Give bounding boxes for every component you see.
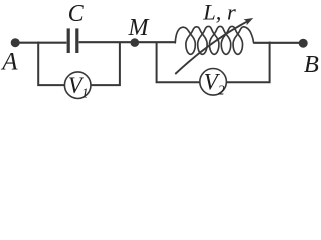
wire V1 loop left side (38, 42, 64, 86)
node A (11, 38, 20, 47)
node M (131, 38, 140, 47)
voltmeter V2 (200, 69, 227, 96)
wire V1 loop right side (91, 42, 120, 86)
wire capacitor to coil (79, 41, 176, 43)
svg-text:L, r: L, r (202, 0, 236, 24)
capacitor C right plate (75, 28, 78, 53)
variable inductor arrowhead (244, 18, 254, 25)
wire A to capacitor (15, 42, 66, 44)
wire coil to B (254, 42, 304, 44)
wire V2 loop left side (157, 42, 200, 83)
wire V2 loop right side (226, 42, 269, 83)
voltmeter V1 (64, 72, 91, 99)
svg-text:B: B (304, 51, 319, 78)
inductor L coil (175, 26, 253, 54)
node B (299, 39, 308, 48)
svg-text:M: M (128, 15, 151, 41)
capacitor C left plate (67, 28, 70, 53)
variable inductor arrow shaft (176, 20, 250, 73)
svg-text:C: C (68, 1, 85, 27)
svg-text:A: A (0, 49, 18, 76)
